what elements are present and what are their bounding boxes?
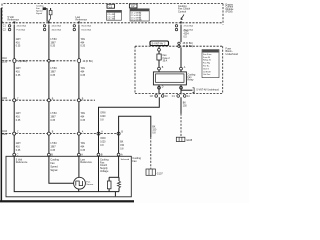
svg-text:LT BU: LT BU [51, 113, 58, 115]
node: Low Reference label [76, 16, 88, 22]
wire label group B col1 [16, 68, 21, 77]
svg-text:LT BU: LT BU [51, 68, 58, 70]
fan box low ref label [80, 158, 92, 164]
fan box pin B supply [97, 153, 100, 156]
connector C410 marker col2 [47, 132, 50, 135]
connector C410 marker col1 [13, 132, 16, 135]
fan box 5 volt ref label [16, 158, 28, 164]
connector info table 2 [130, 9, 149, 21]
svg-text:Relay 45: Relay 45 [203, 60, 212, 62]
wire lowref internal [78, 156, 80, 177]
svg-text:Relay: Relay [188, 80, 195, 82]
svg-text:BK: BK [152, 126, 156, 128]
wire from tag to fuse [158, 46, 160, 54]
wire col4 vertical upper [180, 25, 182, 42]
ECM pin circles col3 [73, 25, 75, 27]
connector C410 marker col supply [97, 132, 100, 135]
resistor branch [108, 177, 110, 181]
wire label group C col3 [81, 112, 86, 122]
page border bottom bar [0, 200, 134, 202]
svg-text:TAN: TAN [81, 142, 86, 145]
node: 5 Volt Reference label [8, 16, 20, 22]
wire label group D col2 [51, 143, 58, 152]
relay top pin circle left [158, 67, 161, 70]
connector C400 marker col1 [13, 99, 16, 102]
svg-text:C3 = BK: C3 = BK [107, 19, 115, 21]
svg-text:0.35: 0.35 [51, 120, 56, 122]
svg-text:0.35: 0.35 [81, 150, 86, 152]
svg-text:GRY: GRY [16, 143, 21, 145]
ECM label "Engine Control Module (PCM)" [226, 3, 235, 13]
wire relay bottom left [158, 85, 160, 95]
svg-text:0.35: 0.35 [16, 150, 21, 152]
fuse block dashed box top edge [135, 45, 223, 47]
wire label group C col1 [16, 113, 21, 122]
fuse F34 [157, 54, 161, 60]
sensor label [86, 181, 93, 186]
fuse block top connector circles col4 [178, 42, 180, 44]
wire relay output routing to fan [99, 97, 160, 153]
svg-text:C: C [17, 153, 19, 156]
wire label supply upper [100, 113, 106, 122]
wire fan ground route [119, 116, 151, 153]
svg-text:0.35: 0.35 [51, 150, 56, 152]
ECM connector row header C1/C2 [3, 26, 7, 32]
wire label group col4 [184, 30, 190, 39]
fan box speed signal label [50, 159, 59, 173]
svg-text:C420: C420 [2, 134, 8, 136]
connector C400 marker col3 [77, 99, 80, 102]
ECM dashed box bottom edge [2, 22, 223, 24]
ECM pin circles col4 [175, 25, 177, 27]
coil feed wire [118, 156, 120, 177]
svg-text:P (D BU): P (D BU) [17, 29, 26, 31]
svg-text:Gray: Gray [184, 30, 190, 33]
svg-text:Reference: Reference [16, 161, 28, 164]
svg-text:0.35: 0.35 [81, 120, 86, 122]
connector info table 1 [107, 10, 122, 20]
svg-text:4254: 4254 [184, 34, 190, 36]
svg-text:1020: 1020 [100, 116, 106, 118]
block entry circle [158, 48, 161, 51]
wire relay coil ground solid [180, 97, 182, 113]
svg-text:Pwr B+: Pwr B+ [203, 66, 210, 68]
fuse block dashed box left edge [134, 46, 136, 93]
inline connector row C400 header [2, 98, 8, 100]
svg-text:0.35: 0.35 [16, 120, 21, 122]
inline connector row C410 dashes [2, 133, 117, 135]
relay K5 outer box [153, 72, 186, 85]
ECM pin wedge col2 [48, 22, 50, 25]
svg-text:30 A: 30 A [163, 60, 168, 63]
bold power feed tag box [150, 41, 169, 46]
case ground tap [114, 192, 116, 197]
fuse block exit connector pair right [177, 95, 180, 98]
svg-text:45 (D BU): 45 (D BU) [183, 43, 193, 45]
svg-text:44 (D BU): 44 (D BU) [52, 26, 62, 28]
inline connector row C110 dashes [2, 60, 77, 62]
node: Cooling Fan Speed Signal label [36, 6, 44, 16]
svg-text:BK: BK [120, 142, 124, 144]
fan box pin A lowref [78, 153, 81, 156]
svg-text:Reference: Reference [80, 161, 92, 164]
fan box pin C [13, 153, 16, 156]
fuse block dashed box bottom edge [135, 93, 223, 95]
relay K5 inner box [156, 74, 185, 82]
connector tag C2 [129, 4, 137, 8]
resistor R [107, 181, 111, 189]
wire label fan ground [152, 126, 157, 134]
connector C410 marker col3 [77, 132, 80, 135]
coil branch [118, 177, 120, 181]
wire col2 vertical [48, 25, 50, 154]
wire relay coil ground dashed [180, 114, 182, 138]
svg-text:1987: 1987 [51, 147, 57, 149]
wire fuse to relay [158, 60, 160, 72]
svg-text:Fuse 2: Fuse 2 [163, 58, 171, 60]
svg-text:Solenoid: Solenoid [121, 159, 130, 161]
ECM pin wedge col3 [78, 22, 80, 25]
svg-text:0.35: 0.35 [81, 75, 86, 77]
node: Cooling Fan Clutch Control label [178, 5, 191, 13]
fuse block dashed box right edge [222, 46, 224, 93]
svg-text:G107: G107 [157, 173, 164, 176]
fan clutch box [6, 156, 131, 197]
fuse block label [226, 48, 239, 56]
svg-text:GRY: GRY [16, 113, 21, 115]
fuse block info table [202, 50, 219, 78]
connector C400 marker col2 [47, 99, 50, 102]
svg-text:Fan Rly: Fan Rly [203, 63, 210, 65]
ECM dashed box top edge [4, 3, 224, 5]
svg-text:GRY: GRY [16, 39, 21, 41]
wire label ground col4 [183, 103, 188, 108]
tap wire to footnote [181, 89, 193, 91]
page border left bar [1, 8, 2, 202]
wire label group B col2 [51, 68, 58, 77]
fan speed sensor circle [74, 177, 86, 189]
inline connector row C110 header [2, 58, 8, 64]
svg-text:BK: BK [183, 103, 187, 105]
wire label group D col3 [81, 142, 86, 152]
svg-text:2 (D BU): 2 (D BU) [18, 61, 27, 63]
ground G108 symbol [176, 137, 192, 142]
svg-text:C410: C410 [2, 131, 8, 133]
footnote bracket [193, 88, 195, 93]
svg-text:Signal: Signal [36, 13, 43, 15]
relay top pin circle right [180, 67, 183, 70]
wire signal internal [49, 156, 74, 183]
ECM dashed box right edge [222, 4, 224, 25]
svg-text:C210: C210 [2, 62, 8, 64]
svg-text:46 (D BU): 46 (D BU) [52, 29, 62, 31]
svg-text:0.35: 0.35 [16, 75, 21, 77]
svg-text:Reference: Reference [76, 19, 88, 22]
svg-text:81 (D BU): 81 (D BU) [82, 29, 92, 31]
wire supply internal [98, 156, 100, 192]
wire label group B col3 [81, 67, 86, 77]
svg-text:Out Fan: Out Fan [203, 73, 210, 76]
svg-text:Signal: Signal [50, 169, 57, 172]
ECM pull-up resistor branch [50, 8, 52, 10]
svg-text:G108: G108 [186, 139, 193, 142]
connector C410 marker col ground [117, 132, 120, 135]
wire label group A col3 [81, 38, 86, 48]
svg-text:ORN: ORN [100, 113, 105, 115]
fan box supply label [100, 158, 109, 173]
svg-text:Fan Fuse: Fan Fuse [203, 54, 212, 56]
svg-text:Fan: Fan [132, 160, 137, 163]
wire label supply lower [100, 138, 106, 147]
connector C110 marker col3 [78, 58, 81, 63]
svg-text:TAN: TAN [81, 112, 86, 115]
relay label [188, 74, 197, 81]
wire col4 to relay [180, 47, 182, 72]
sensor bottom stub [78, 189, 80, 192]
svg-text:0.35: 0.35 [16, 46, 21, 48]
ECM pin wedge col4 [180, 22, 182, 25]
ECM internal driver block for speed signal [43, 8, 46, 10]
svg-text:TAN: TAN [81, 38, 86, 41]
svg-text:Sensor: Sensor [86, 183, 93, 186]
svg-text:Gnd G: Gnd G [203, 68, 209, 70]
svg-text:80 (D BU): 80 (D BU) [82, 26, 92, 28]
wire fan ground dashed [150, 137, 152, 169]
svg-text:LT BU: LT BU [51, 39, 58, 41]
svg-text:Underhood: Underhood [226, 53, 239, 56]
connector tag C1 [107, 4, 115, 8]
svg-text:43 (D BU): 43 (D BU) [17, 26, 27, 28]
svg-text:0.35: 0.35 [81, 46, 86, 48]
svg-text:C400: C400 [2, 98, 8, 100]
coil zigzag [117, 181, 120, 188]
svg-text:C2: C2 [131, 4, 135, 8]
ECM pin circles col1 [8, 25, 10, 27]
svg-text:0.35: 0.35 [51, 75, 56, 77]
svg-text:1987: 1987 [51, 72, 57, 74]
svg-text:C1: C1 [109, 4, 113, 8]
ground G107 symbol [146, 169, 163, 176]
svg-text:Control: Control [178, 10, 187, 13]
fan box label Cooling Fan [132, 157, 141, 163]
svg-text:ORN: ORN [100, 138, 105, 140]
svg-text:47 (D BU): 47 (D BU) [184, 26, 194, 28]
svg-text:Ctl ECM: Ctl ECM [203, 70, 211, 73]
relay bottom pin circle left [158, 86, 161, 89]
fan box pin B signal [48, 153, 51, 156]
inline connector row C400 dashes [2, 99, 95, 101]
svg-text:S-VNT-AV 2: S-VNT-AV 2 [152, 42, 166, 46]
connector C110 marker col1 [13, 58, 16, 63]
wire from driver block to pin B [46, 9, 47, 22]
coil top bar [109, 176, 119, 178]
svg-text:S-VNT-AV Underhood: S-VNT-AV Underhood [196, 89, 219, 92]
svg-text:LT BU: LT BU [51, 143, 58, 145]
svg-text:Voltage: Voltage [100, 170, 109, 173]
fan box pin A ground [117, 153, 120, 156]
svg-text:0.35: 0.35 [51, 46, 56, 48]
ECM internal driver arrow [181, 15, 184, 20]
wire label group D col ground [120, 142, 125, 151]
wire label group D col1 [16, 143, 21, 152]
ECM pin circles col2 [43, 25, 45, 27]
svg-text:C4 = 56 GN: C4 = 56 GN [131, 20, 142, 22]
ECM pin wedge col1 [13, 22, 15, 25]
svg-text:40 (D BU): 40 (D BU) [83, 61, 93, 63]
relay bottom pin circle right [180, 86, 183, 89]
svg-text:(PCM): (PCM) [226, 10, 233, 13]
svg-text:Fuse 34: Fuse 34 [203, 57, 211, 59]
inline connector row C410 header [2, 131, 8, 136]
sensor square wave glyph [76, 181, 83, 186]
wire label group A col1 [16, 39, 21, 48]
svg-text:C110: C110 [2, 58, 8, 60]
wire 5v ref internal [14, 156, 119, 192]
wire relay bottom right [180, 85, 182, 95]
svg-text:Reference: Reference [8, 19, 20, 22]
wire label group C col2 [51, 113, 58, 122]
wire col3 vertical [78, 25, 80, 154]
svg-text:1987: 1987 [51, 117, 57, 119]
wire col1 vertical [13, 25, 15, 154]
wire label group A col2 [51, 39, 58, 48]
svg-text:1987: 1987 [51, 42, 57, 44]
svg-text:TAN: TAN [81, 67, 86, 70]
svg-text:1020: 1020 [100, 142, 106, 144]
fuse block exit connector pair left [155, 95, 158, 98]
ECM dashed box left edge [1, 4, 3, 23]
connector C110 marker col2 [48, 60, 51, 63]
svg-text:GRY: GRY [16, 68, 21, 70]
